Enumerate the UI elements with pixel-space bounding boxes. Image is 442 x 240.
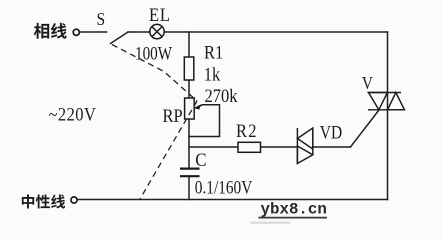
svg-text:R1: R1 — [204, 42, 223, 63]
svg-text:100W: 100W — [135, 43, 173, 64]
terminal phase line — [73, 29, 79, 35]
wire triac gate diagonal — [351, 110, 379, 147]
label 中性线 — [22, 194, 65, 208]
svg-text:RP: RP — [163, 105, 183, 126]
wire phase terminal to switch — [80, 31, 107, 33]
wire node to R2 — [189, 146, 238, 148]
wire bottom from neutral terminal — [78, 199, 388, 201]
wire R2 to diac VD — [261, 146, 298, 148]
svg-text:R2: R2 — [236, 120, 258, 141]
diac VD — [297, 128, 312, 165]
svg-text:VD: VD — [320, 122, 342, 143]
wire C to bottom line — [188, 177, 190, 200]
potentiometer RP body — [185, 98, 195, 119]
svg-text:1k: 1k — [204, 63, 221, 84]
lamp EL — [150, 24, 164, 38]
wire top junction to R1 — [188, 32, 190, 57]
wire right vertical triac branch — [387, 32, 389, 200]
resistor R2 — [238, 142, 261, 152]
svg-text:V: V — [362, 73, 373, 93]
triac V — [368, 93, 405, 110]
svg-text:270k: 270k — [205, 85, 238, 106]
resistor R1 — [184, 57, 194, 80]
capacitor C plates — [180, 168, 200, 170]
wire lamp to top-right corner — [164, 31, 387, 33]
switch S arm — [111, 32, 129, 44]
dashed mechanical link S to RP — [112, 45, 197, 200]
terminal neutral line — [71, 197, 77, 203]
label 相线 — [34, 23, 67, 39]
svg-text:C: C — [195, 149, 206, 170]
wire diac to gate bend — [313, 146, 351, 148]
svg-text:S: S — [97, 9, 106, 29]
wire switch to lamp — [128, 31, 150, 33]
svg-text:0.1/160V: 0.1/160V — [195, 177, 253, 198]
scan noise marks — [250, 222, 290, 224]
svg-text:ybx8.cn: ybx8.cn — [261, 201, 327, 219]
RP wiper arrowhead — [194, 104, 201, 109]
svg-text:~220V: ~220V — [49, 104, 97, 125]
wire RP to capacitor C — [188, 119, 190, 168]
watermark underline — [259, 217, 328, 219]
svg-text:EL: EL — [149, 4, 171, 25]
wire R1 to RP — [188, 80, 190, 98]
wire RP wiper loop — [189, 105, 220, 137]
